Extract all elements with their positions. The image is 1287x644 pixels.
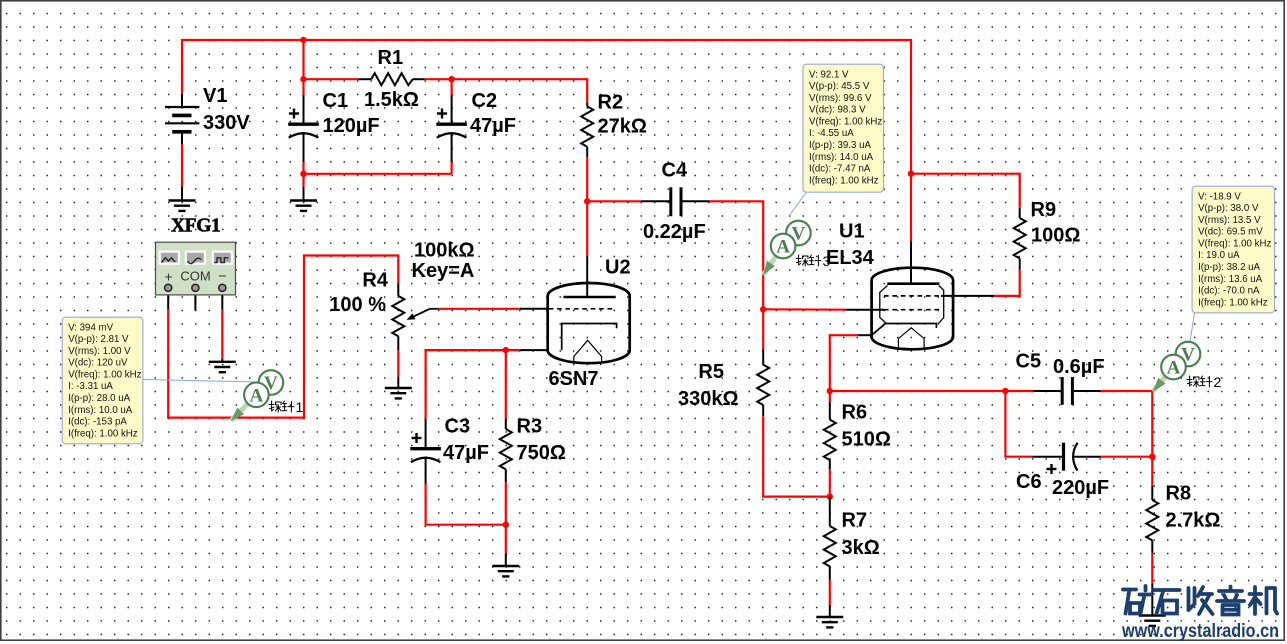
junction C6/R8 node — [1149, 454, 1155, 460]
wire R9 bottom to U1 g2 — [994, 269, 1020, 296]
svg-text:A: A — [776, 237, 790, 258]
measurement box probe3 data — [803, 64, 884, 192]
svg-text:R4: R4 — [362, 270, 388, 292]
probe probe1 arrow head — [231, 408, 244, 421]
wire main B+ rail with V1 and U1 plate drops — [182, 40, 911, 241]
probe probe3 A circle — [771, 234, 796, 259]
measurement box probe1 data — [62, 317, 143, 444]
probe probe2 V circle — [1176, 342, 1201, 367]
callout line probe1 — [143, 380, 258, 383]
svg-text:1: 1 — [296, 399, 304, 415]
svg-text:U2: U2 — [605, 256, 631, 278]
junction C4/R5/U1-g1 node — [760, 306, 766, 312]
wire C2 bottom lead red — [451, 162, 453, 174]
XFG1 terminal at x=222.3 — [219, 284, 226, 291]
tube envelope U1 — [872, 268, 954, 350]
wire C4 to U1 grid node — [710, 201, 764, 309]
svg-text:27kΩ: 27kΩ — [598, 116, 647, 138]
svg-text:R3: R3 — [517, 416, 543, 438]
plus sign C1 polarity — [289, 109, 299, 119]
function generator XFG1 — [156, 242, 236, 295]
ground below R4 — [385, 388, 412, 398]
probe probe3 arrow shaft — [763, 246, 783, 275]
battery V1 — [165, 94, 199, 144]
svg-text:R8: R8 — [1166, 483, 1192, 505]
probe label tanzhen1 — [269, 401, 294, 412]
U2 heater — [574, 340, 602, 361]
resistor body R7 — [824, 526, 836, 566]
svg-text:0.6µF: 0.6µF — [1053, 356, 1105, 378]
probe probe1 arrow shaft — [231, 395, 257, 421]
wire node to C4 — [587, 200, 641, 202]
svg-text:R7: R7 — [842, 510, 868, 532]
resistor body R6 — [824, 420, 836, 460]
wire node to R1 left — [304, 78, 359, 80]
callout line probe3 — [789, 193, 806, 217]
R4 wiper arrow — [413, 309, 430, 317]
wire R4 bottom lead — [397, 350, 399, 377]
plus sign C3 polarity — [412, 433, 422, 443]
ground below C1 — [290, 201, 317, 211]
svg-text:R5: R5 — [698, 361, 724, 383]
junction C1 top node — [300, 76, 306, 82]
wire R4 wiper to U2 grid — [439, 308, 520, 310]
probe probe1 A circle — [244, 383, 269, 408]
wire node to R6 — [829, 391, 831, 402]
wire C2 top lead red — [451, 79, 453, 95]
XFG1 terminal at x=195.4 — [192, 284, 199, 291]
svg-text:Key=A: Key=A — [412, 260, 475, 282]
junction top rail / V1 node — [300, 37, 306, 43]
tube envelope U2 — [548, 283, 630, 363]
capacitor C6 — [1064, 443, 1078, 471]
svg-text:C4: C4 — [662, 160, 688, 182]
probe probe3 V circle — [786, 221, 811, 246]
wire down to R3 — [505, 350, 507, 419]
svg-text:C3: C3 — [445, 416, 471, 438]
junction C2 top node — [448, 76, 454, 82]
junction C1 bottom node — [300, 171, 306, 177]
junction R3/C3 ground node — [503, 522, 509, 528]
probe probe2 A circle — [1161, 355, 1186, 380]
probe label tanzhen2 — [1187, 376, 1212, 387]
ground below R3 — [492, 566, 519, 576]
wire U2 cathode run to C3 — [426, 350, 520, 419]
probe probe2 arrow shaft — [1153, 367, 1174, 392]
svg-text:750Ω: 750Ω — [517, 442, 566, 464]
probe probe2 arrow head — [1153, 378, 1166, 392]
capacitor C5 — [1062, 377, 1072, 405]
XFG1 waveform button 2 — [185, 251, 206, 265]
svg-text:47µF: 47µF — [443, 442, 489, 464]
svg-text:U1: U1 — [839, 221, 865, 243]
plus sign C6 polarity — [1047, 464, 1057, 474]
svg-text:330V: 330V — [203, 112, 250, 134]
svg-text:V1: V1 — [203, 85, 227, 107]
svg-text:120µF: 120µF — [323, 115, 380, 137]
resistor body R4 potentiometer — [392, 296, 404, 336]
svg-text:C2: C2 — [472, 90, 498, 112]
svg-text:C6: C6 — [1016, 471, 1042, 493]
wire R8 bottom lead — [1151, 553, 1153, 584]
svg-text:100 %: 100 % — [329, 294, 386, 316]
svg-text:XFG1: XFG1 — [171, 216, 220, 237]
capacitor C1 — [288, 124, 319, 138]
ground below R7 — [816, 617, 843, 627]
svg-text:A: A — [250, 385, 264, 406]
wire R1 right to C2 node — [425, 78, 452, 80]
wire node to R9 top — [911, 174, 1020, 208]
svg-text:C1: C1 — [323, 90, 349, 112]
capacitor C3 — [410, 449, 441, 463]
svg-text:COM: COM — [180, 269, 210, 284]
svg-text:100Ω: 100Ω — [1031, 225, 1080, 247]
wire C1-C2 bottom wire — [304, 173, 453, 175]
ground below R8 — [1139, 616, 1166, 626]
pentode U1 EL34 interior — [872, 284, 944, 348]
probe probe1 V circle — [259, 370, 284, 395]
wire node to ground — [505, 525, 507, 554]
resistor body R2 — [581, 106, 593, 146]
svg-text:+: + — [164, 269, 172, 285]
junction R2/C4/U2 plate node — [584, 198, 590, 204]
svg-text:2.7kΩ: 2.7kΩ — [1166, 510, 1221, 532]
wire C3 bottom to R3 node — [426, 484, 506, 525]
svg-text:www.crystalradio.cn: www.crystalradio.cn — [1121, 621, 1279, 642]
probe probe3 arrow head — [763, 261, 775, 275]
resistor body R5 — [757, 365, 769, 405]
U1 heater — [898, 328, 924, 348]
watermark crystalradio logo — [1123, 586, 1277, 615]
callout line probe2 — [1190, 313, 1195, 345]
capacitor C4 — [671, 187, 681, 216]
svg-text:510Ω: 510Ω — [842, 429, 891, 451]
svg-text:EL34: EL34 — [826, 247, 875, 269]
wire R7 bottom lead — [829, 580, 831, 606]
svg-text:100kΩ: 100kΩ — [414, 239, 475, 261]
wire U1 cathode to node — [830, 335, 858, 391]
wire node down to R5 — [762, 309, 764, 349]
resistor body R8 — [1146, 500, 1158, 540]
wire XFG1 - to ground — [221, 309, 223, 359]
svg-text:R1: R1 — [378, 47, 404, 69]
svg-text:A: A — [1167, 358, 1181, 379]
wire R2 bottom to node — [586, 157, 588, 201]
triode U2 6SN7 interior — [549, 297, 617, 362]
wire cathode node to C5 — [830, 390, 1034, 392]
svg-text:220µF: 220µF — [1052, 477, 1109, 499]
wire node to U1 grid — [763, 308, 846, 311]
plus sign C2 polarity — [437, 109, 447, 119]
wire node down to U2 plate — [586, 201, 588, 256]
wire V1 bottom lead — [181, 144, 183, 186]
svg-text:−: − — [218, 268, 226, 284]
svg-text:330kΩ: 330kΩ — [678, 388, 739, 410]
svg-text:47µF: 47µF — [470, 115, 516, 137]
wire B+ to C1/R1 node — [302, 40, 304, 79]
U1 beam cage outline — [880, 286, 944, 325]
svg-text:0.22µF: 0.22µF — [643, 221, 706, 243]
XFG1 waveform button 1 — [159, 251, 180, 265]
svg-text:2: 2 — [1214, 374, 1222, 390]
wire R6 bottom to node — [829, 469, 831, 497]
wire C5 to output node — [1101, 391, 1153, 457]
wire C1 bottom lead red — [302, 162, 304, 174]
wire C6 to output node — [1101, 456, 1153, 458]
resistor body R1 — [371, 73, 412, 85]
ground below XFG1 — [209, 362, 236, 372]
svg-text:R6: R6 — [842, 402, 868, 424]
svg-text:1.5kΩ: 1.5kΩ — [364, 89, 419, 111]
svg-text:3kΩ: 3kΩ — [842, 537, 880, 559]
measurement box probe2 data — [1192, 186, 1274, 313]
wire node down to R8 — [1151, 457, 1153, 486]
resistor body R9 — [1014, 218, 1026, 258]
svg-text:3: 3 — [823, 253, 831, 269]
junction U1 plate / R9 node — [908, 171, 914, 177]
svg-text:6SN7: 6SN7 — [549, 368, 599, 390]
wire C2 node to R2 top — [452, 79, 588, 102]
wire R3 bottom lead — [505, 482, 507, 525]
wire C1 top lead red — [302, 79, 304, 95]
junction cathode / R3 node — [503, 347, 509, 353]
XFG1 terminal at x=168.2 — [165, 284, 172, 291]
junction cathode/R6/C5 node — [827, 388, 833, 394]
svg-text:C5: C5 — [1016, 351, 1042, 373]
resistor body R3 — [500, 429, 512, 469]
wire XFG1 + output to R4 — [168, 256, 398, 418]
svg-text:R2: R2 — [598, 92, 624, 114]
junction R6/R7/R5 node — [827, 493, 833, 499]
svg-text:R9: R9 — [1031, 199, 1057, 221]
wire C1 node to ground — [302, 174, 304, 187]
ground below V1 — [169, 201, 196, 211]
wire R5 bottom to R6/R7 node — [763, 416, 830, 496]
junction C5/C6 branch node — [1002, 388, 1008, 394]
capacitor C2 — [436, 124, 467, 138]
wire branch down to C6 — [1005, 391, 1032, 457]
probe label tanzhen3 — [796, 255, 821, 266]
XFG1 waveform button 3 — [212, 251, 233, 265]
